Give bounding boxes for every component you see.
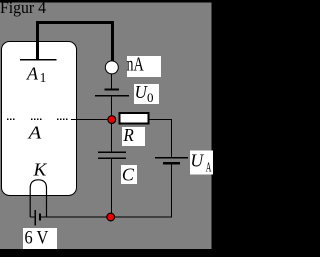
- svg-text:Figur 4: Figur 4: [0, 0, 46, 17]
- wire battery U0 to node: [111, 96, 112, 116]
- wire anode A to node: [71, 119, 109, 120]
- dotted anode A inside tube: [7, 119, 67, 120]
- svg-text:R: R: [122, 125, 134, 145]
- battery UA long plate: [155, 157, 188, 158]
- cathode filament: [30, 180, 46, 217]
- capacitor C top plate: [98, 152, 126, 153]
- wire down to battery UA: [171, 119, 172, 157]
- wire ammeter to battery U0: [111, 74, 112, 89]
- svg-text:A: A: [206, 160, 212, 175]
- label box R: [122, 127, 145, 146]
- label box UA: [190, 151, 213, 175]
- cathode ray tube envelope: [2, 42, 77, 196]
- wire filament left to 6V battery: [30, 216, 35, 217]
- electrode A1 bar: [20, 59, 56, 60]
- 6V battery short plate: [39, 213, 41, 220]
- capacitor C bottom plate: [98, 158, 126, 159]
- svg-text:C: C: [122, 165, 134, 185]
- svg-text:6 V: 6 V: [25, 229, 49, 249]
- wire node down to capacitor C: [111, 120, 112, 152]
- ammeter circle: [105, 61, 118, 74]
- svg-text:0: 0: [147, 90, 154, 105]
- svg-text:A: A: [26, 64, 39, 84]
- svg-text:nA: nA: [126, 55, 143, 76]
- node junction lower (red): [107, 213, 115, 221]
- wire capacitor down to bottom node: [111, 159, 112, 218]
- bottom wire to node and UA branch: [41, 216, 172, 217]
- 6V battery long plate: [35, 210, 36, 225]
- resistor R box: [120, 113, 149, 124]
- label box U0: [134, 84, 159, 104]
- battery U0 short plate: [105, 89, 119, 91]
- wire battery UA down: [171, 164, 172, 217]
- battery UA short plate: [163, 162, 180, 164]
- label box C: [121, 165, 137, 184]
- label box 6V: [23, 228, 57, 249]
- svg-text:1: 1: [40, 70, 47, 85]
- svg-text:U: U: [190, 150, 204, 170]
- battery U0 long plate: [95, 95, 129, 97]
- wire from anode A1 up and over to ammeter: [36, 21, 114, 61]
- svg-text:K: K: [32, 159, 47, 179]
- svg-text:A: A: [27, 123, 41, 143]
- node junction upper (red): [108, 116, 116, 124]
- label box nA: [127, 56, 161, 77]
- wire resistor to UA branch: [150, 119, 173, 120]
